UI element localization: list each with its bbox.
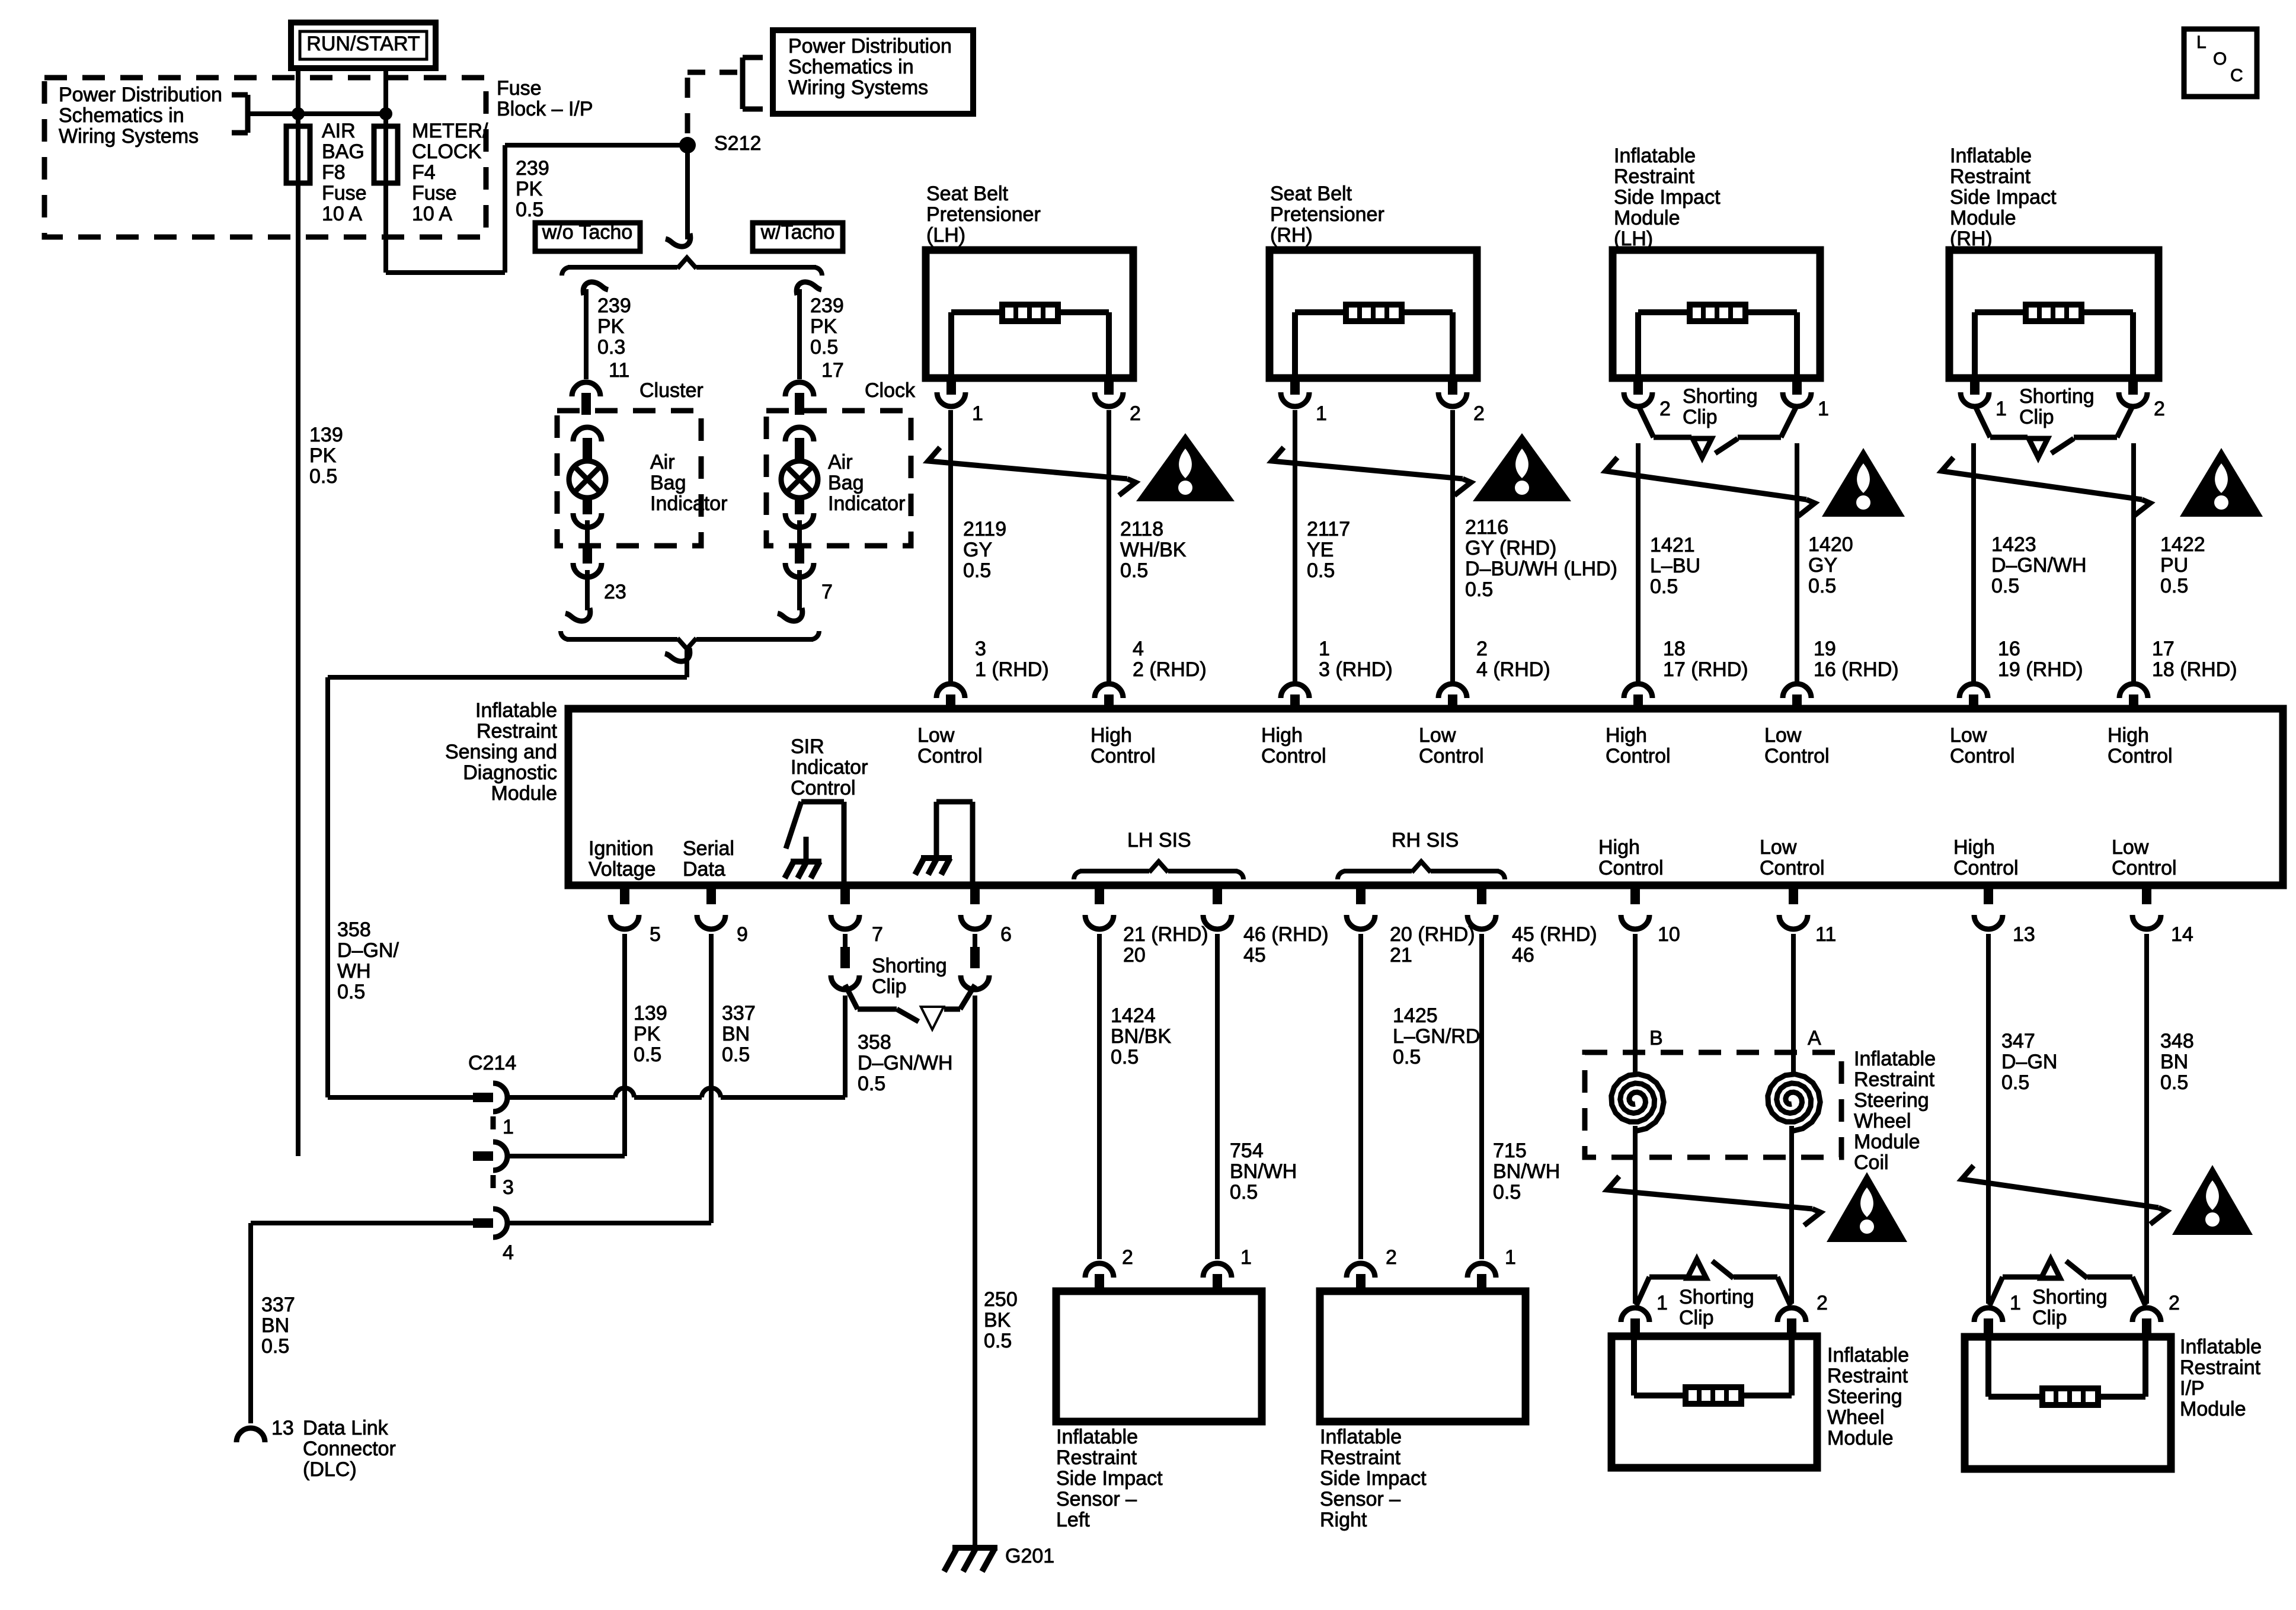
label Fuse Block - I/P (497, 77, 593, 120)
label 239 PK 0.5 right branch (810, 295, 844, 359)
ground G201 symbol (944, 1548, 997, 1571)
svg-text:S212: S212 (714, 132, 761, 155)
svg-text:Side Impact: Side Impact (1614, 186, 1721, 209)
svg-text:239: 239 (597, 295, 631, 317)
C214 pin 4 number (503, 1241, 514, 1264)
svg-text:GY (RHD): GY (RHD) (1465, 537, 1556, 559)
svg-text:11: 11 (1815, 923, 1836, 946)
svg-text:Clock: Clock (865, 379, 916, 402)
wire pin14 to clip (2144, 934, 2149, 1304)
svg-text:45: 45 (1243, 944, 1266, 966)
serial-ground leg inside module (915, 802, 973, 885)
svg-text:19: 19 (1814, 638, 1836, 660)
wire RUN/START to AIR BAG fuse (296, 68, 300, 126)
fuse F8 AIR BAG (286, 126, 310, 183)
label 239 PK 0.3 (597, 295, 631, 359)
svg-text:2 (RHD): 2 (RHD) (1133, 658, 1207, 681)
svg-text:0.5: 0.5 (2001, 1071, 2029, 1094)
svg-text:2: 2 (1386, 1246, 1397, 1269)
shorting clip side impact LH (1639, 408, 1796, 457)
svg-text:0.5: 0.5 (1465, 578, 1493, 601)
svg-text:348: 348 (2160, 1030, 2194, 1052)
svg-text:Indicator: Indicator (650, 492, 727, 515)
svg-text:1: 1 (1657, 1292, 1668, 1314)
shorting clip steering wheel (1621, 1259, 1806, 1336)
svg-text:Control: Control (1419, 745, 1484, 767)
svg-text:358: 358 (858, 1031, 891, 1054)
steering clip labels (1657, 1286, 1828, 1329)
wire 139 PK from fuse F8 down to C214 pin 3 (296, 183, 300, 1156)
svg-text:Low: Low (2112, 836, 2149, 859)
label 715 BN/WH 0.5 (1493, 1140, 1560, 1204)
wire harness drop 7 (1971, 443, 1976, 681)
svg-text:High: High (1598, 836, 1640, 859)
label 358 D-GN/WH 0.5 (clip) (858, 1031, 953, 1095)
svg-text:9: 9 (737, 923, 748, 946)
wire pin21 to sensor right (1358, 934, 1363, 1259)
svg-text:16: 16 (1998, 638, 2020, 660)
svg-text:23: 23 (604, 581, 626, 603)
svg-text:LH SIS: LH SIS (1127, 829, 1191, 852)
warning triangle 5 (1827, 1172, 1907, 1242)
svg-text:L: L (2196, 33, 2207, 52)
svg-text:Shorting: Shorting (2032, 1286, 2108, 1308)
svg-text:358: 358 (337, 918, 371, 941)
svg-text:10 A: 10 A (322, 203, 362, 225)
svg-text:High: High (1606, 724, 1647, 747)
seat belt pretensioner RH label (1270, 183, 1384, 247)
svg-text:Inflatable: Inflatable (1320, 1426, 1402, 1448)
inflatable restraint side impact module LH box (1613, 250, 1820, 406)
svg-text:0.5: 0.5 (1111, 1046, 1139, 1068)
wire bracket bus (298, 111, 386, 116)
svg-text:WH/BK: WH/BK (1120, 539, 1187, 561)
wire harness drop 6 (1795, 443, 1799, 681)
power feed RUN/START box (291, 23, 436, 68)
label 1424 BN/BK 0.5 (1111, 1004, 1171, 1068)
wire coil B to steering clip (1633, 1126, 1638, 1304)
warning triangle 4 (2180, 448, 2263, 517)
svg-text:Shorting: Shorting (1679, 1286, 1754, 1308)
svg-text:1: 1 (1818, 398, 1829, 420)
svg-text:Wiring Systems: Wiring Systems (59, 125, 199, 148)
warning triangle 1 (1136, 433, 1235, 501)
label 358 D-GN/WH 0.5 (left) (337, 918, 399, 1003)
shorting clip RH labels (1996, 385, 2165, 428)
SBP RH pin numbers (1316, 402, 1485, 425)
cluster dashed box with air bag indicator lamp (557, 411, 701, 621)
svg-text:Power Distribution: Power Distribution (59, 84, 222, 106)
fuse F4 METER/CLOCK (374, 126, 398, 183)
svg-text:2: 2 (2154, 398, 2165, 420)
module bottom labels control (1598, 836, 2177, 879)
svg-text:1422: 1422 (2160, 533, 2205, 556)
module bottom pin connectors (610, 885, 2161, 929)
svg-text:SIR: SIR (791, 735, 824, 758)
w/Tacho box (753, 221, 843, 251)
C214 pin 3 wire to module pin 5 (509, 934, 625, 1156)
svg-text:3 (RHD): 3 (RHD) (1319, 658, 1393, 681)
label Cluster (639, 379, 703, 402)
svg-text:Control: Control (2108, 745, 2173, 767)
module bottom labels ignition/serial (589, 837, 734, 881)
svg-text:0.5: 0.5 (984, 1330, 1012, 1352)
inflatable restraint steering wheel module box (1611, 1336, 1817, 1468)
brace RH SIS (1338, 862, 1505, 879)
svg-text:0.5: 0.5 (516, 199, 543, 221)
svg-text:PK: PK (597, 315, 625, 338)
svg-text:Sensor –: Sensor – (1320, 1488, 1400, 1510)
pin 23 number (604, 581, 626, 603)
module bottom pin numbers (650, 923, 2193, 966)
svg-text:Ignition: Ignition (589, 837, 654, 860)
steering wheel module coil dashed box (1585, 1052, 1841, 1157)
caution pointer 1 (928, 447, 1136, 495)
side impact module LH label (1614, 145, 1721, 250)
svg-text:20 (RHD): 20 (RHD) (1390, 923, 1475, 946)
label 347 D-GN 0.5 (2001, 1030, 2057, 1094)
svg-text:Inflatable: Inflatable (2180, 1336, 2262, 1358)
svg-text:Wiring Systems: Wiring Systems (788, 76, 928, 99)
svg-text:Serial: Serial (683, 837, 734, 860)
svg-text:Connector: Connector (303, 1438, 396, 1460)
svg-text:2: 2 (1659, 398, 1671, 420)
warning triangle 6 (2172, 1165, 2253, 1235)
svg-text:Voltage: Voltage (589, 858, 655, 881)
fuse F4 label (412, 120, 488, 225)
label 337 BN 0.5 (pin9) (722, 1002, 756, 1066)
svg-text:1421: 1421 (1650, 534, 1695, 556)
svg-text:Shorting: Shorting (1683, 385, 1758, 408)
svg-text:Wheel: Wheel (1854, 1110, 1911, 1132)
coil spiral B (1611, 1074, 1664, 1131)
coil label (1854, 1048, 1936, 1174)
svg-text:I/P: I/P (2180, 1377, 2205, 1400)
svg-text:19 (RHD): 19 (RHD) (1998, 658, 2083, 681)
air bag indicator label (cluster) (650, 451, 727, 515)
inflatable restraint side impact sensor right box (1320, 1291, 1526, 1422)
w/o Tacho box (535, 221, 640, 251)
svg-text:45 (RHD): 45 (RHD) (1512, 923, 1597, 946)
svg-text:METER/: METER/ (412, 120, 488, 142)
svg-text:1: 1 (1319, 638, 1330, 660)
svg-text:Power Distribution: Power Distribution (788, 35, 952, 57)
label 1425 L-GN/RD 0.5 (1393, 1004, 1480, 1068)
svg-text:Indicator: Indicator (791, 756, 868, 779)
module top pin connectors (936, 684, 2148, 709)
svg-text:Control: Control (917, 745, 983, 767)
svg-text:Seat Belt: Seat Belt (1270, 183, 1352, 205)
svg-text:20: 20 (1123, 944, 1146, 966)
warning triangle 3 (1822, 448, 1905, 517)
wire SIR indicator to C214 pin 1 (328, 648, 690, 1097)
pin 17 connector (785, 382, 814, 415)
svg-text:B: B (1649, 1027, 1663, 1049)
svg-text:D–GN/WH: D–GN/WH (1991, 554, 2087, 577)
svg-text:BN/WH: BN/WH (1230, 1160, 1297, 1183)
svg-text:GY: GY (1808, 554, 1837, 577)
svg-text:13: 13 (2013, 923, 2035, 946)
svg-text:7: 7 (821, 581, 833, 603)
coil spiral A (1768, 1074, 1820, 1131)
data link connector DLC (236, 1428, 265, 1442)
svg-text:Restraint: Restraint (2180, 1356, 2261, 1379)
svg-text:17 (RHD): 17 (RHD) (1663, 658, 1748, 681)
svg-text:1: 1 (503, 1116, 514, 1138)
svg-text:2116: 2116 (1465, 516, 1508, 539)
C214 pin 4 (473, 1209, 507, 1237)
svg-text:Restraint: Restraint (477, 720, 558, 742)
brace LH SIS (1074, 862, 1243, 879)
wire C214 pin 4 to DLC (251, 1223, 474, 1423)
svg-text:Clip: Clip (1683, 406, 1718, 428)
caution pointer 5 (1607, 1176, 1821, 1225)
wire S212 down to split (666, 145, 690, 247)
svg-text:(LH): (LH) (1614, 228, 1653, 250)
svg-text:139: 139 (634, 1002, 667, 1025)
svg-text:10 A: 10 A (412, 203, 452, 225)
svg-text:0.5: 0.5 (1650, 575, 1678, 598)
svg-text:Clip: Clip (872, 975, 907, 998)
C214 pin 3 number and dash (493, 1175, 514, 1199)
seat belt pretensioner RH box (1269, 250, 1477, 406)
I/P module label (2180, 1336, 2262, 1420)
svg-text:1425: 1425 (1393, 1004, 1438, 1027)
svg-text:Low: Low (1419, 724, 1456, 747)
C214 pin 1 wire to shorting clip (509, 996, 845, 1097)
svg-text:(RH): (RH) (1270, 224, 1313, 247)
svg-text:D–GN/WH: D–GN/WH (858, 1052, 953, 1074)
svg-text:Module: Module (1614, 207, 1680, 229)
svg-text:(RH): (RH) (1950, 228, 1993, 250)
svg-text:PK: PK (516, 178, 543, 200)
svg-text:2: 2 (1122, 1246, 1133, 1269)
svg-text:Right: Right (1320, 1509, 1367, 1531)
svg-text:Control: Control (1764, 745, 1830, 767)
svg-text:715: 715 (1493, 1140, 1527, 1162)
svg-text:0.5: 0.5 (1307, 559, 1335, 582)
bracket to power distribution schematics (232, 95, 298, 133)
svg-text:0.5: 0.5 (858, 1073, 885, 1095)
svg-text:PU: PU (2160, 554, 2188, 577)
svg-text:Inflatable: Inflatable (1950, 145, 2032, 167)
svg-text:Left: Left (1056, 1509, 1090, 1531)
svg-text:Control: Control (791, 777, 856, 799)
svg-text:0.5: 0.5 (261, 1335, 289, 1358)
svg-text:RH SIS: RH SIS (1392, 829, 1459, 852)
svg-text:Seat Belt: Seat Belt (926, 183, 1009, 205)
svg-text:239: 239 (516, 157, 549, 180)
svg-text:O: O (2213, 49, 2227, 69)
inflatable restraint I/P module box (1965, 1337, 2171, 1469)
warning triangle 2 (1473, 433, 1571, 501)
C214 pin 1 (473, 1083, 507, 1112)
svg-text:Module: Module (1827, 1427, 1894, 1449)
air bag indicator label (clock) (828, 451, 905, 515)
caution pointer 6 (1962, 1166, 2167, 1224)
svg-text:Low: Low (917, 724, 955, 747)
svg-text:347: 347 (2001, 1030, 2035, 1052)
svg-text:BN: BN (261, 1314, 289, 1337)
svg-text:Steering: Steering (1827, 1385, 1902, 1408)
svg-text:Control: Control (1953, 857, 2019, 879)
svg-text:Low: Low (1950, 724, 1987, 747)
svg-text:D–GN: D–GN (2001, 1051, 2057, 1073)
svg-text:w/o Tacho: w/o Tacho (542, 221, 632, 244)
shorting clip module label (872, 955, 947, 998)
svg-text:1: 1 (2010, 1292, 2021, 1314)
svg-text:0.5: 0.5 (2160, 1071, 2188, 1094)
svg-text:Restraint: Restraint (1320, 1446, 1401, 1469)
svg-text:High: High (1091, 724, 1132, 747)
svg-text:Clip: Clip (2019, 406, 2054, 428)
svg-text:18: 18 (1663, 638, 1686, 660)
C214 pin 4 wire to module pin 9 (509, 934, 711, 1223)
label 139 PK 0.5 upper (309, 424, 343, 488)
label 239 PK 0.5 at fuse output (516, 157, 549, 221)
svg-text:Air: Air (828, 451, 853, 473)
svg-text:21 (RHD): 21 (RHD) (1123, 923, 1208, 946)
label RH SIS (1392, 829, 1459, 852)
svg-text:Side Impact: Side Impact (1950, 186, 2057, 209)
svg-text:16 (RHD): 16 (RHD) (1814, 658, 1899, 681)
module top pin numbers (975, 638, 2237, 681)
fuse block I/P dashed box (44, 78, 486, 237)
wire pin45 to sensor left (1215, 934, 1220, 1259)
label 337 BN 0.5 (DLC) (261, 1294, 295, 1358)
svg-text:0.5: 0.5 (1393, 1046, 1421, 1068)
svg-text:1420: 1420 (1808, 533, 1853, 556)
wire harness drop 5 (1636, 443, 1641, 681)
svg-text:Low: Low (1764, 724, 1802, 747)
svg-text:2117: 2117 (1307, 518, 1350, 540)
drop wire labels (963, 516, 2205, 601)
merge brace below indicators (561, 631, 819, 649)
svg-text:2: 2 (2169, 1292, 2180, 1314)
sensor left label (1056, 1426, 1163, 1531)
sensor right pin connectors (1347, 1263, 1496, 1291)
caution pointer 3 (1606, 457, 1815, 516)
svg-text:0.3: 0.3 (597, 336, 625, 359)
svg-text:Fuse: Fuse (412, 182, 457, 204)
inflatable restraint side impact sensor left box (1056, 1291, 1262, 1422)
svg-text:Sensor –: Sensor – (1056, 1488, 1137, 1510)
svg-text:46 (RHD): 46 (RHD) (1243, 923, 1329, 946)
wire pin6 to ground G201 (973, 996, 977, 1548)
svg-text:Inflatable: Inflatable (1854, 1048, 1936, 1070)
svg-text:RUN/START: RUN/START (306, 33, 420, 55)
svg-text:13: 13 (271, 1417, 294, 1439)
svg-text:Side Impact: Side Impact (1320, 1467, 1427, 1490)
SIR indicator control label (791, 735, 868, 799)
svg-text:Fuse: Fuse (322, 182, 367, 204)
svg-text:Restraint: Restraint (1827, 1365, 1908, 1387)
svg-text:BK: BK (984, 1309, 1011, 1331)
seat belt pretensioner LH box (926, 250, 1133, 406)
svg-text:337: 337 (722, 1002, 756, 1025)
connector C214 label (468, 1052, 516, 1074)
svg-text:754: 754 (1230, 1140, 1264, 1162)
svg-text:Shorting: Shorting (2019, 385, 2094, 408)
svg-text:Restraint: Restraint (1950, 165, 2031, 188)
wire coil A to steering clip (1789, 1126, 1794, 1304)
svg-text:BN: BN (722, 1023, 750, 1045)
svg-text:0.5: 0.5 (1808, 575, 1836, 597)
svg-text:WH: WH (337, 960, 371, 982)
svg-text:1: 1 (1316, 402, 1327, 425)
C214 pin 3 (473, 1142, 507, 1170)
side impact module RH label (1950, 145, 2057, 250)
shorting clip side impact RH (1976, 408, 2132, 457)
svg-text:Shorting: Shorting (872, 955, 947, 977)
svg-text:BN: BN (2160, 1051, 2188, 1073)
svg-text:Module: Module (1950, 207, 2016, 229)
svg-text:F8: F8 (322, 161, 346, 184)
C214 pin 1 number and dash (493, 1116, 514, 1141)
svg-text:Wheel: Wheel (1827, 1406, 1884, 1429)
sensor right label (1320, 1426, 1427, 1531)
label LH SIS (1127, 829, 1191, 852)
svg-text:High: High (1953, 836, 1995, 859)
svg-text:Restraint: Restraint (1614, 165, 1695, 188)
svg-text:4 (RHD): 4 (RHD) (1476, 658, 1550, 681)
wire pin11 to coil (1791, 934, 1796, 1076)
svg-text:1: 1 (1505, 1246, 1516, 1269)
svg-text:Fuse: Fuse (497, 77, 542, 100)
wire pin20 to sensor left (1097, 934, 1102, 1259)
svg-text:Clip: Clip (1679, 1307, 1714, 1329)
svg-text:2: 2 (1476, 638, 1488, 660)
junction dot B (379, 107, 392, 120)
svg-text:Control: Control (1606, 745, 1671, 767)
svg-text:YE: YE (1307, 539, 1334, 561)
svg-text:Data Link: Data Link (303, 1417, 389, 1439)
bracket to power distribution box (743, 57, 763, 109)
label 250 BK 0.5 (984, 1288, 1018, 1352)
svg-text:0.5: 0.5 (722, 1044, 750, 1066)
svg-text:Indicator: Indicator (828, 492, 905, 515)
svg-text:Restraint: Restraint (1854, 1068, 1935, 1091)
svg-text:Schematics in: Schematics in (788, 56, 914, 78)
dashed reference link from S212 (687, 70, 740, 133)
label 139 PK 0.5 (pin5) (634, 1002, 667, 1066)
svg-text:7: 7 (872, 923, 883, 946)
svg-text:2118: 2118 (1120, 518, 1163, 540)
fuse F8 label (322, 120, 367, 225)
svg-text:BAG: BAG (322, 140, 364, 163)
svg-text:4: 4 (1133, 638, 1144, 660)
sensor left pin numbers (1122, 1246, 1252, 1269)
shorting clip I/P (1974, 1259, 2161, 1337)
svg-text:L–BU: L–BU (1650, 555, 1700, 577)
junction dot A (292, 107, 305, 120)
svg-text:High: High (1261, 724, 1303, 747)
module pin6 lower connector (961, 934, 989, 990)
module top pin function labels (917, 724, 2173, 767)
pin 7 number (821, 581, 833, 603)
svg-text:46: 46 (1512, 944, 1534, 966)
svg-text:Pretensioner: Pretensioner (1270, 203, 1384, 226)
svg-text:D–GN/: D–GN/ (337, 939, 399, 962)
caution pointer 2 (1272, 447, 1471, 495)
svg-text:AIR: AIR (322, 120, 356, 142)
svg-text:Pretensioner: Pretensioner (926, 203, 1041, 226)
svg-text:Module: Module (1854, 1131, 1920, 1153)
svg-text:Module: Module (2180, 1398, 2246, 1420)
svg-text:0.5: 0.5 (1991, 575, 2019, 597)
svg-text:Side Impact: Side Impact (1056, 1467, 1163, 1490)
svg-text:A: A (1808, 1027, 1821, 1049)
